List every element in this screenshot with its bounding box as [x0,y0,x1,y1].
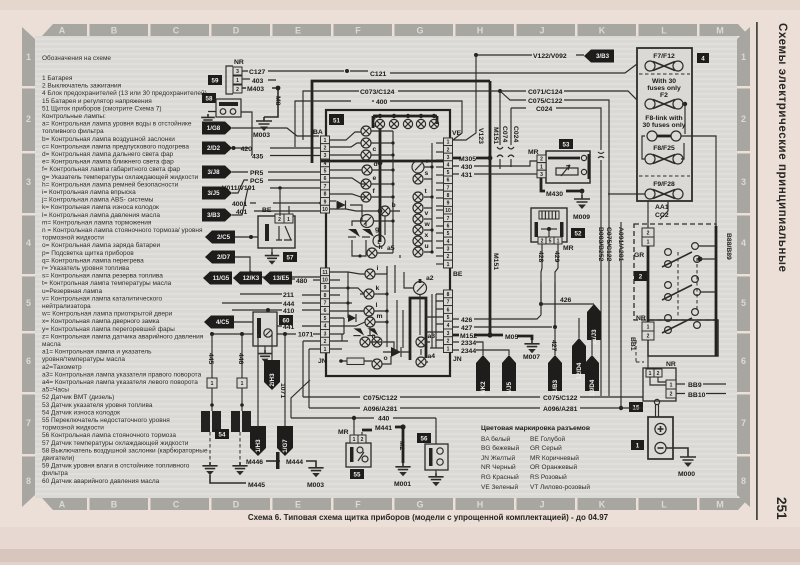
svg-text:6: 6 [447,178,450,184]
wire 400 [295,99,462,147]
svg-text:PC5: PC5 [250,178,263,185]
svg-text:53 Датчик указателя уровня топ: 53 Датчик указателя уровня топлива [42,402,153,409]
svg-text:K: K [599,500,606,510]
label box 56 [417,433,431,443]
connector arrow 2/H3 (down) [264,334,280,390]
svg-text:6: 6 [324,308,327,314]
svg-text:1: 1 [236,78,239,84]
svg-text:M003: M003 [307,482,324,489]
svg-text:RG Красный: RG Красный [481,473,519,481]
svg-text:2: 2 [540,157,543,163]
svg-text:445: 445 [207,353,214,365]
switch 58 (choke switch) [208,99,252,147]
svg-text:C024: C024 [536,106,552,113]
wire C075/C122 (lower) [303,341,643,402]
svg-text:двигатели): двигатели) [42,455,74,462]
svg-text:w= Контрольная лампа приоткрыт: w= Контрольная лампа приоткрытой двери [41,310,173,318]
svg-text:5: 5 [26,298,31,308]
svg-text:NR: NR [234,59,244,66]
label box 53 [559,139,573,149]
svg-text:M2: M2 [398,441,405,451]
svg-text:H: H [477,26,484,36]
label box 58 [202,93,216,103]
connector 59 (moisture sensor connector) [226,59,244,94]
label box 60 [279,315,293,325]
label box 55 [350,469,364,479]
svg-text:e: e [373,175,377,182]
svg-text:BE Голубой: BE Голубой [530,435,565,443]
zener diodes lower pair [353,328,378,335]
diode lower [348,314,356,322]
connector arrow 12/D4 [572,318,586,379]
tachometer loop thick trace [410,279,426,360]
fuse F9/F28 [608,181,683,199]
wire 440 [291,380,436,444]
svg-text:5: 5 [324,316,327,322]
svg-text:C127: C127 [249,69,265,76]
svg-text:4/K2: 4/K2 [480,381,487,395]
svg-text:C: C [173,500,180,510]
svg-text:8: 8 [324,192,327,198]
connector arrow 3/J5, wire PC5 [202,178,321,200]
switch pins 1,2 bottom / NR [636,315,654,340]
wire 444 [222,301,321,308]
svg-text:VT Лилово-розовый: VT Лилово-розовый [530,483,590,491]
svg-text:w: w [424,221,431,228]
svg-text:1: 1 [353,437,356,443]
svg-text:10: 10 [445,208,451,214]
svg-text:4 Блок предохранителей (13 или: 4 Блок предохранителей (13 или 30 предох… [42,89,207,97]
wire 403 [242,78,276,85]
indicator lamps inside cluster [360,122,435,369]
wire 429 [553,244,560,329]
svg-text:56: 56 [421,436,428,443]
svg-text:60: 60 [283,318,290,325]
wire M403 / M8 to ground M003 [242,86,281,117]
svg-text:4/J5: 4/J5 [506,381,513,394]
thick trace vertical (dimmer feed) [378,128,383,242]
fuse box 4 [637,48,692,201]
svg-text:VE: VE [452,130,462,137]
svg-text:m= Контрольная лампа торможени: m= Контрольная лампа торможения [42,219,152,226]
svg-text:2/D2: 2/D2 [207,145,221,152]
svg-text:5: 5 [324,169,327,175]
svg-text:v: v [425,210,429,217]
connector arrow 11/B3 [548,355,562,391]
thick wire GR [647,246,650,322]
svg-text:BB1: BB1 [629,337,636,351]
svg-text:a4: a4 [428,353,436,360]
wire 2334 to connector 4/K2 [453,340,490,395]
svg-text:тормозной жидкости: тормозной жидкости [42,424,104,432]
wire 2344 to connector 4/J5 [453,348,516,394]
connector arrow 3/B3 (left), wire V011/V191 [202,185,321,222]
right margin rule and page header [756,22,788,520]
label box 54 [215,429,229,439]
TDC sensor 52 [531,208,574,252]
label box 59 [208,75,222,85]
svg-text:a1= Контрольная лампа и указат: a1= Контрольная лампа и указатель [42,349,152,356]
svg-text:p: p [374,113,378,120]
wire 410 [232,308,321,315]
temperature sender 57 [258,186,295,248]
svg-text:JN: JN [318,358,327,365]
svg-text:C024: C024 [512,126,519,142]
connector arrow 2/D2, wire 420 [202,142,321,155]
svg-text:441: 441 [283,324,295,331]
wire C073/C124 to junction [303,89,502,140]
wire BB1 dashed [629,337,644,362]
wire 445 to pad wear sensor [207,334,217,411]
resistor in lamp o branch [339,358,372,365]
svg-text:L: L [661,500,667,510]
svg-text:1: 1 [647,239,650,245]
ignition switch lower housing [648,320,718,356]
vertical trunk labels B083/B252 C075/C122 A091/A281 [597,227,624,262]
svg-text:C121: C121 [370,71,386,78]
svg-text:7: 7 [447,216,450,222]
svg-text:M000: M000 [678,471,695,478]
svg-text:2: 2 [447,254,450,260]
svg-text:420: 420 [241,146,253,153]
wire 428 [537,244,544,306]
svg-text:уровня/температуры масла: уровня/температуры масла [42,356,125,363]
svg-text:p= Подсветка щитка приборов: p= Подсветка щитка приборов [42,249,134,257]
svg-text:3: 3 [236,69,239,75]
svg-text:430: 430 [461,164,473,171]
svg-text:54: 54 [219,432,226,439]
svg-text:1: 1 [324,347,327,353]
svg-text:54 Датчик износа колодок: 54 Датчик износа колодок [42,409,120,416]
svg-text:440: 440 [378,416,390,423]
separator dashed 2 [639,175,690,177]
svg-text:53: 53 [563,142,570,149]
svg-text:1: 1 [540,164,543,170]
svg-text:1: 1 [741,52,746,62]
svg-text:1: 1 [670,382,673,388]
svg-text:7: 7 [26,418,31,428]
svg-text:M441: M441 [375,425,392,432]
wire 435 from switch 58 [251,147,321,161]
svg-text:1: 1 [211,381,214,387]
svg-text:401: 401 [236,209,248,216]
svg-text:B88/B89: B88/B89 [725,233,732,260]
svg-text:m: m [377,313,383,320]
svg-text:A096/A281: A096/A281 [363,406,398,413]
svg-text:F8-link with: F8-link with [645,115,682,122]
svg-text:58: 58 [206,96,213,103]
svg-text:s= Контрольная лампа резерва т: s= Контрольная лампа резерва топлива [42,273,163,280]
svg-text:3: 3 [324,331,327,337]
ignition switch 2 housing (dashed) [634,224,716,320]
svg-text:j= Контрольная лампа ABS- сист: j= Контрольная лампа ABS- системы [41,197,154,204]
svg-text:4: 4 [701,56,705,63]
svg-text:D: D [233,26,240,36]
svg-text:MR Коричневый: MR Коричневый [530,454,579,462]
wire M152 / M05 to ground M007 [453,332,540,361]
wire C024 vertical with break [508,108,519,167]
ground M446 [232,459,280,475]
svg-text:t= Контрольная лампа температу: t= Контрольная лампа температуры масла [42,280,172,287]
svg-text:M403: M403 [247,86,264,93]
svg-text:a3: a3 [428,333,436,340]
svg-text:q= Контрольная лампа перегрева: q= Контрольная лампа перегрева [42,257,144,264]
svg-text:a= Контрольная лампа уровня во: a= Контрольная лампа уровня воды в отсто… [42,120,192,128]
svg-text:C075/C122: C075/C122 [363,395,398,402]
label box 1 [631,440,644,450]
svg-text:o= Контрольная лампа заряда ба: o= Контрольная лампа заряда батареи [42,241,160,249]
svg-text:3/B3: 3/B3 [207,212,221,219]
svg-text:BA белый: BA белый [481,435,511,443]
svg-text:12/D4: 12/D4 [576,362,583,379]
svg-text:C075/C122: C075/C122 [528,98,563,105]
vertical wire A091/A281 [619,222,623,410]
svg-text:4: 4 [26,238,31,248]
svg-text:2: 2 [647,333,650,339]
svg-text:L: L [661,26,667,36]
wire M305 [453,156,492,163]
svg-text:D: D [233,500,240,510]
wire M441 / M2 to ground M001 [375,424,411,488]
svg-text:a5: a5 [387,245,395,252]
connector arrow 1/H3 (down) [250,334,266,456]
svg-text:1: 1 [26,52,31,62]
svg-text:u: u [425,243,429,250]
ground lead M444 [276,452,303,469]
svg-text:JN Желтый: JN Желтый [481,454,516,462]
svg-text:2/H3: 2/H3 [269,373,276,387]
handbrake warning switch 56 [425,444,448,486]
svg-text:BB9: BB9 [688,382,702,389]
svg-text:2: 2 [236,87,239,93]
svg-text:2: 2 [447,339,450,345]
wire 4001 [232,201,323,208]
wire 441 from oil pressure sensor [277,324,321,331]
wire C024 [511,106,604,396]
svg-text:Контрольные лампы:: Контрольные лампы: [42,113,106,120]
svg-text:55 Переключатель недостаточног: 55 Переключатель недостаточного уровня [42,417,170,424]
svg-text:M151: M151 [492,127,499,144]
svg-text:2: 2 [670,391,673,397]
svg-text:444: 444 [283,301,295,308]
wire B88/B89 thick right [716,226,732,356]
svg-text:15 Батарея и регулятор напряже: 15 Батарея и регулятор напряжения [42,98,152,105]
svg-text:60 Датчик аварийного давления: 60 Датчик аварийного давления масла [42,477,160,485]
wire 430 to fuel sender [453,161,537,171]
svg-text:10: 10 [322,207,328,213]
fuse F2 (with 30 fuses only) [645,78,687,134]
svg-text:7: 7 [324,301,327,307]
svg-text:l= Контрольная лампа давления: l= Контрольная лампа давления масла [42,212,160,219]
wire 431 to fuel sender [453,172,537,179]
svg-text:d: d [374,161,378,168]
svg-text:400: 400 [376,99,388,106]
svg-text:fuses only: fuses only [647,85,681,92]
svg-text:s: s [425,170,429,177]
svg-text:Схема 6. Типовая схема щитка п: Схема 6. Типовая схема щитка приборов (м… [248,513,609,522]
wire C127 [242,69,349,76]
svg-text:59: 59 [212,78,219,85]
svg-text:426: 426 [560,297,572,304]
svg-text:10: 10 [322,277,328,283]
thick illumination bus [373,114,437,128]
svg-text:G: G [416,500,423,510]
fuel gauge r [412,158,429,173]
svg-text:f= Контрольная лампа габаритно: f= Контрольная лампа габаритного света ф… [42,165,180,173]
svg-text:BE: BE [453,271,463,278]
svg-text:30 fuses only: 30 fuses only [642,122,685,129]
svg-text:x: x [425,232,429,239]
svg-text:A: A [59,26,66,36]
svg-text:57 Датчик температуры охлаждаю: 57 Датчик температуры охлаждающей жидкос… [42,439,189,447]
svg-text:5: 5 [447,231,450,237]
svg-text:BE: BE [262,207,272,214]
svg-text:a4= Контрольная лампа указател: a4= Контрольная лампа указателя левого п… [42,379,198,386]
svg-text:l: l [376,302,378,309]
svg-text:e= Контрольная лампа ближнего: e= Контрольная лампа ближнего света фар [42,158,174,166]
svg-text:BB10: BB10 [688,392,706,399]
svg-text:a5=Часы: a5=Часы [42,387,69,394]
svg-text:M: M [716,500,724,510]
colour code legend [481,425,590,491]
svg-text:52 Датчик ВМТ (дизель): 52 Датчик ВМТ (дизель) [42,394,114,401]
svg-text:o: o [384,355,388,362]
svg-text:M8: M8 [274,96,281,106]
svg-text:i: i [377,265,379,272]
svg-text:3/B3: 3/B3 [596,53,610,60]
connector arrow 13/D4 [585,337,599,396]
svg-text:13/D4: 13/D4 [589,379,596,396]
svg-text:2: 2 [657,371,660,377]
label box 52 [571,228,585,238]
svg-text:фильтра: фильтра [42,470,68,477]
svg-text:r: r [426,158,429,165]
wire BB10 [676,392,726,399]
svg-text:CC2: CC2 [655,212,669,219]
svg-text:MR: MR [338,429,349,436]
ground M003 (bottom) [306,461,324,489]
svg-text:M009: M009 [573,214,590,221]
svg-text:9: 9 [447,201,450,207]
svg-text:7: 7 [741,418,746,428]
svg-text:211: 211 [283,292,294,299]
svg-text:3: 3 [447,155,450,161]
svg-text:2344: 2344 [461,348,476,355]
svg-text:2: 2 [639,274,643,281]
svg-text:NR Черный: NR Черный [481,463,516,471]
fuel gauge sender 53 [528,149,590,183]
svg-text:1: 1 [241,381,244,387]
wire M430 to ground M009 [541,178,590,221]
svg-text:H: H [477,500,484,510]
svg-text:M305: M305 [459,156,476,163]
svg-text:11: 11 [322,270,328,276]
svg-text:4: 4 [447,239,450,245]
svg-text:4: 4 [447,163,450,169]
wire 401 [236,209,321,216]
svg-text:1: 1 [447,140,450,146]
connector arrows 11/G5 12/K3 13/E5 and wire 480 [203,272,321,286]
svg-text:1 Батарея: 1 Батарея [42,75,73,82]
svg-text:V123: V123 [477,128,484,144]
svg-text:V122/V092: V122/V092 [533,53,567,60]
svg-text:Обозначения на схеме: Обозначения на схеме [42,54,111,62]
svg-text:PR5: PR5 [250,170,263,177]
svg-text:3: 3 [447,247,450,253]
svg-text:M444: M444 [286,459,303,466]
svg-text:3/J8: 3/J8 [207,169,220,176]
svg-text:A: A [59,500,66,510]
svg-text:8: 8 [447,292,450,298]
svg-text:GR Серый: GR Серый [530,444,562,452]
svg-text:2: 2 [324,145,327,151]
svg-text:GR: GR [634,252,644,259]
clock a5 [373,235,395,252]
svg-text:435: 435 [252,154,264,161]
zener diodes upper pair [348,221,374,246]
connector strip BE (right, pins 7-1) [444,214,463,278]
svg-text:11/G5: 11/G5 [213,275,230,282]
connector strip JN (lower left, pins 11-1) [318,268,330,365]
svg-text:5: 5 [447,170,450,176]
svg-text:7: 7 [447,185,450,191]
label box 15 [629,402,643,412]
ground M000 [666,448,696,478]
svg-text:4: 4 [447,323,450,329]
svg-text:446: 446 [237,353,244,365]
svg-text:57: 57 [287,255,294,262]
svg-text:1071: 1071 [279,383,286,398]
svg-text:B083/B252: B083/B252 [597,227,604,262]
svg-text:1: 1 [447,346,450,352]
svg-text:M151: M151 [492,253,499,270]
svg-text:VE Зеленый: VE Зеленый [481,483,518,491]
svg-text:6: 6 [447,223,450,229]
separator dashed [639,73,690,75]
svg-text:F: F [355,500,361,510]
svg-text:2: 2 [278,217,281,223]
svg-text:1/H3: 1/H3 [255,439,262,453]
svg-text:C: C [173,26,180,36]
svg-text:JN: JN [453,356,462,363]
wire 427 [453,283,557,355]
svg-text:2: 2 [647,230,650,236]
svg-text:y= Контрольная лампа перегорев: y= Контрольная лампа перегоревшей фары [42,325,175,333]
svg-text:429: 429 [553,251,560,263]
svg-text:2: 2 [447,147,450,153]
wire 211 [240,292,321,299]
svg-text:3/J5: 3/J5 [207,190,220,197]
svg-text:13/E5: 13/E5 [273,275,290,282]
diode at BA pin9 [337,201,346,210]
svg-text:C071/C124: C071/C124 [528,89,563,96]
svg-text:K: K [599,26,606,36]
ground M003 (top) [253,117,272,139]
svg-text:431: 431 [461,172,473,179]
svg-text:51 Щиток приборов (смотрите Сх: 51 Щиток приборов (смотрите Схема 7) [42,104,162,112]
svg-text:7: 7 [447,300,450,306]
svg-text:i= Контрольная лампа впрыска: i= Контрольная лампа впрыска [42,189,136,196]
thick trace BA4 to VE3 (M305 net) [321,160,443,163]
svg-text:b= Контрольная лампа воздушной: b= Контрольная лампа воздушной заслонки [42,135,175,143]
svg-text:нейтрализатора: нейтрализатора [42,302,91,310]
svg-text:8: 8 [447,193,450,199]
svg-text:MR: MR [563,245,574,252]
svg-text:1: 1 [287,217,290,223]
svg-text:F7/F12: F7/F12 [653,53,675,60]
svg-text:E: E [295,26,301,36]
svg-text:8: 8 [26,476,31,486]
